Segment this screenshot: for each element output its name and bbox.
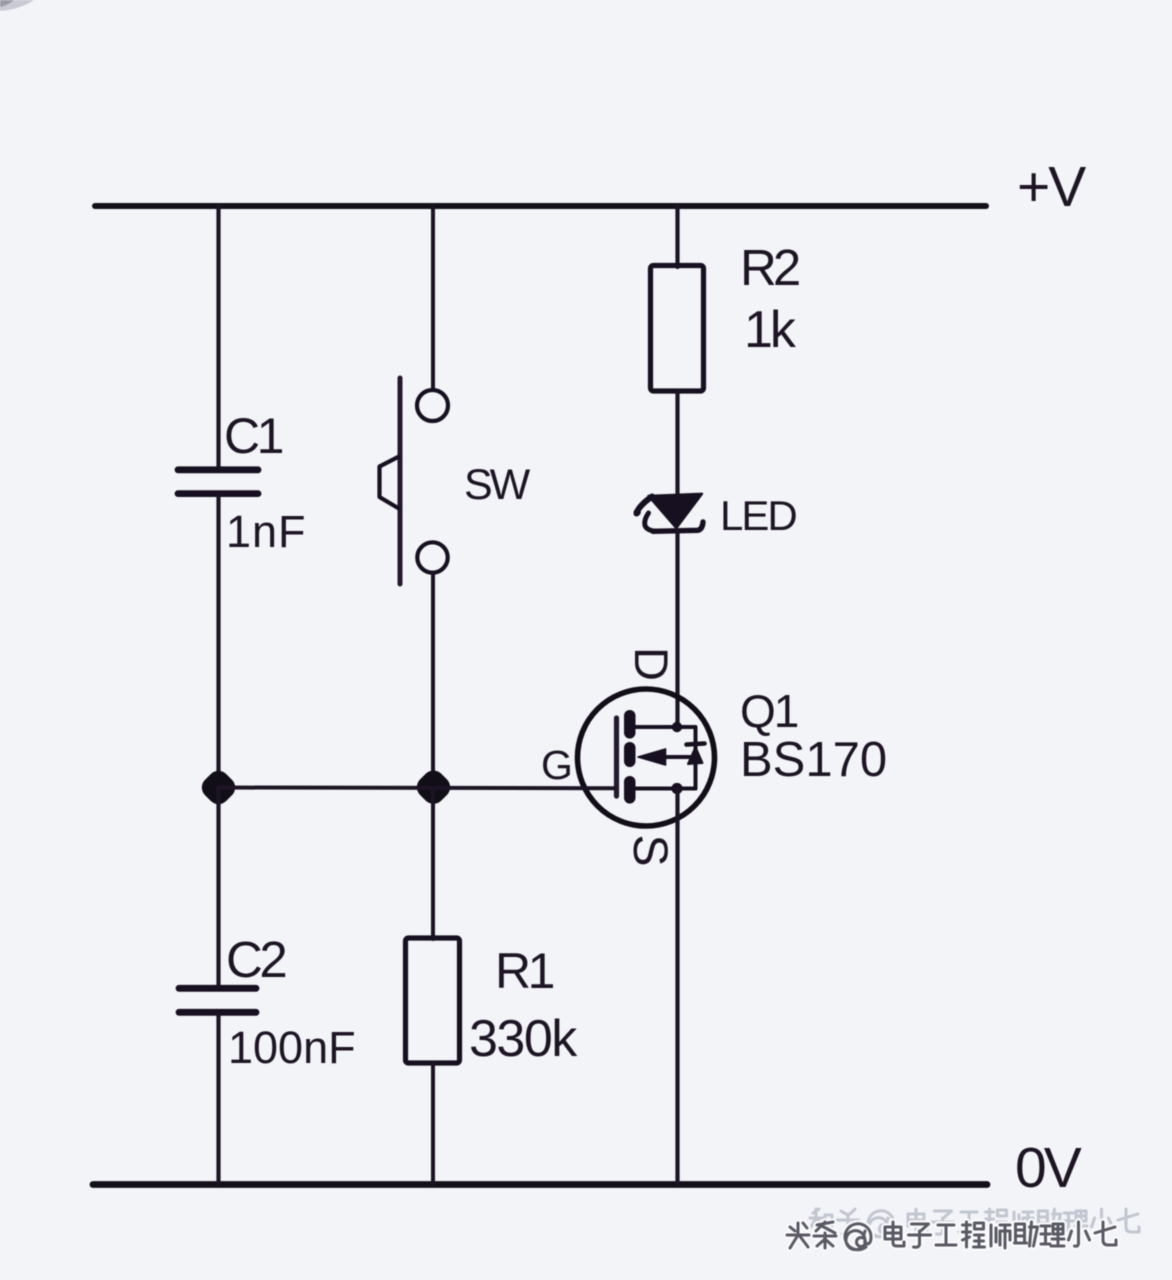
svg-text:0V: 0V [1015, 1136, 1082, 1200]
wire: node A to node B to gate [219, 786, 614, 791]
svg-text:+V: +V [1017, 155, 1086, 219]
switch SW lever [398, 378, 403, 584]
Q1 body diode triangle [688, 747, 703, 764]
Q1 body diode bar [687, 744, 705, 745]
Q1 channel bar top [624, 710, 636, 739]
resistor R1 [406, 938, 460, 1063]
Q1 drain junction dot [672, 722, 682, 732]
switch SW bottom contact [417, 542, 447, 572]
LED D1 light arrow 1 [637, 497, 653, 514]
svg-text:1k: 1k [744, 301, 797, 359]
svg-text:LED: LED [720, 492, 796, 539]
Q1 drain internal wire [634, 727, 696, 789]
net +V rail [95, 203, 986, 209]
corner smudge [0, 0, 34, 11]
svg-text:G: G [541, 742, 573, 788]
node A junction dot [197, 766, 239, 808]
capacitor C1 [178, 470, 258, 494]
wire: node A to C2 top [216, 788, 220, 985]
wire: switch bottom to node B [431, 573, 435, 787]
wire: C1 bottom to node A [216, 497, 220, 788]
svg-text:C1: C1 [224, 408, 283, 464]
svg-text:R1: R1 [495, 943, 554, 999]
wire: R2 bottom to LED anode [675, 391, 679, 497]
svg-text:Q1: Q1 [740, 685, 798, 737]
svg-text:R2: R2 [740, 239, 799, 296]
wire: source to 0V rail [675, 789, 679, 1184]
svg-text:330k: 330k [469, 1010, 578, 1068]
watermark dark layer [787, 1222, 1116, 1250]
LED D1 cathode bar [653, 522, 703, 531]
svg-text:D: D [625, 647, 678, 681]
switch SW actuator bump [380, 457, 399, 508]
LED D1 triangle [649, 494, 703, 528]
wire: +V rail to switch top contact [431, 206, 435, 389]
wire: node B to R1 top [431, 788, 435, 939]
wire: C2 bottom to 0V rail [216, 1015, 220, 1185]
Q1 source internal wire [634, 787, 696, 791]
Q1 body wire [664, 755, 696, 759]
Q1 source junction dot [671, 783, 682, 794]
watermark light layer [810, 1209, 1139, 1237]
wire: +V rail to R2 top [675, 206, 679, 267]
mosfet Q1 body circle [578, 689, 715, 826]
Q1 gate bar [614, 718, 619, 796]
svg-text:SW: SW [464, 461, 531, 509]
svg-text:1nF: 1nF [226, 506, 307, 557]
LED D1 light arrow 1 blob [634, 509, 641, 516]
svg-text:S: S [623, 835, 676, 867]
switch SW top contact [417, 390, 448, 421]
svg-text:C2: C2 [226, 931, 285, 988]
net 0V rail [93, 1181, 987, 1188]
svg-text:100nF: 100nF [228, 1022, 356, 1073]
svg-text:BS170: BS170 [740, 733, 887, 787]
watermark dark layer halo [787, 1222, 1116, 1250]
wire: LED cathode to drain node [675, 531, 679, 727]
node B junction dot [412, 766, 454, 808]
LED D1 light arrow 2 [645, 513, 655, 531]
wire: R1 bottom to 0V rail [431, 1063, 435, 1184]
capacitor C2 [179, 988, 256, 1012]
resistor R2 [651, 266, 704, 392]
wire: +V rail to C1 top [216, 206, 220, 467]
Q1 body arrow [638, 749, 666, 765]
Q1 channel bar middle [624, 742, 636, 767]
Q1 channel bar bottom [624, 776, 636, 804]
